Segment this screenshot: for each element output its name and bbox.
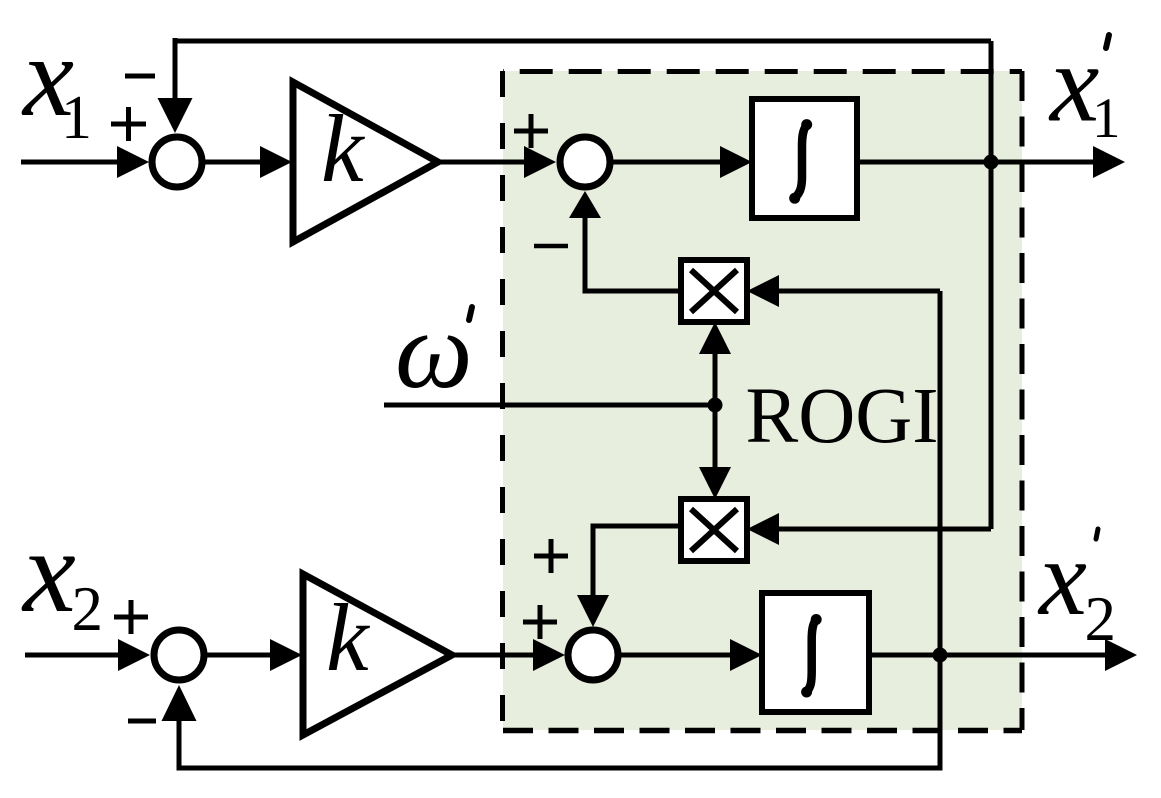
summing junction S3 [568, 630, 618, 680]
svg-text:ω: ω [395, 289, 473, 411]
wire: I2 to x2' output with arrow [869, 653, 1108, 658]
summing junction S1 [152, 137, 202, 187]
sign + at S2 [514, 114, 548, 148]
wire: x2' tap vertical down to bottom feedback into S4 [179, 291, 940, 768]
integrator I2 [762, 593, 869, 712]
wire: M1 output to S2 bottom [585, 218, 681, 291]
node A: x1' output node [984, 155, 999, 170]
wire: top feedback horizontal [175, 39, 991, 44]
wire: omega node down to M2 with arrow [713, 405, 718, 469]
sign - at S2 [534, 244, 568, 249]
gain k1 triangle [293, 82, 438, 242]
summing junction S4 [154, 630, 204, 680]
svg-text:2: 2 [1085, 584, 1117, 654]
wire: right vertical from top feedback down to M2 input [989, 41, 994, 529]
wire: S3 to integrator I2 with arrow [621, 653, 732, 658]
wire: k2 to S3 with arrow [452, 653, 535, 658]
sign + upper at S3 [534, 539, 568, 573]
wire: omega node up to M1 with arrow [713, 352, 718, 405]
wire: I1 to x1' output with arrow [857, 160, 1096, 165]
sign - at S4 [128, 719, 156, 724]
wire: S2 to integrator I1 with arrow [613, 160, 722, 165]
wire: M2 output to S3 top [593, 526, 681, 596]
gain k2 triangle [303, 574, 452, 735]
svg-text:2: 2 [72, 574, 104, 644]
wire: M2 right input from x1' tap [779, 527, 991, 532]
multiplier M1 [681, 260, 747, 322]
node B: x2' output node [933, 648, 948, 663]
svg-text:1: 1 [1092, 87, 1121, 150]
sign - at S1 [125, 74, 155, 79]
wire: top feedback left vertical with arrow into S1 [173, 38, 178, 100]
wire: M1 right input from x2' tap [779, 289, 940, 294]
summing junction S2 [560, 137, 610, 187]
svg-text:ROGI: ROGI [746, 373, 939, 460]
omega prime [469, 307, 472, 320]
svg-text:1: 1 [61, 84, 92, 152]
wire: S4 to gain k2 [207, 653, 272, 658]
svg-text:k: k [321, 95, 366, 202]
svg-text:x: x [1037, 519, 1087, 638]
sign + lower at S3 [523, 605, 557, 639]
svg-text:k: k [326, 584, 371, 691]
sign + at S4 [114, 600, 148, 634]
wire: omega input [384, 403, 715, 408]
wire: S1 to gain k1 [205, 160, 262, 165]
sign + at S1 [111, 107, 146, 141]
wire: k1 to S2 with arrow [438, 160, 526, 165]
ROGI dashed box [503, 71, 1023, 731]
wire: x1 input with arrow [21, 160, 120, 165]
svg-text:x: x [21, 505, 76, 637]
multiplier M2 [681, 499, 747, 561]
integrator I1 [752, 99, 857, 218]
node C: omega node [708, 398, 723, 413]
wire: x2 input with arrow [25, 653, 120, 658]
